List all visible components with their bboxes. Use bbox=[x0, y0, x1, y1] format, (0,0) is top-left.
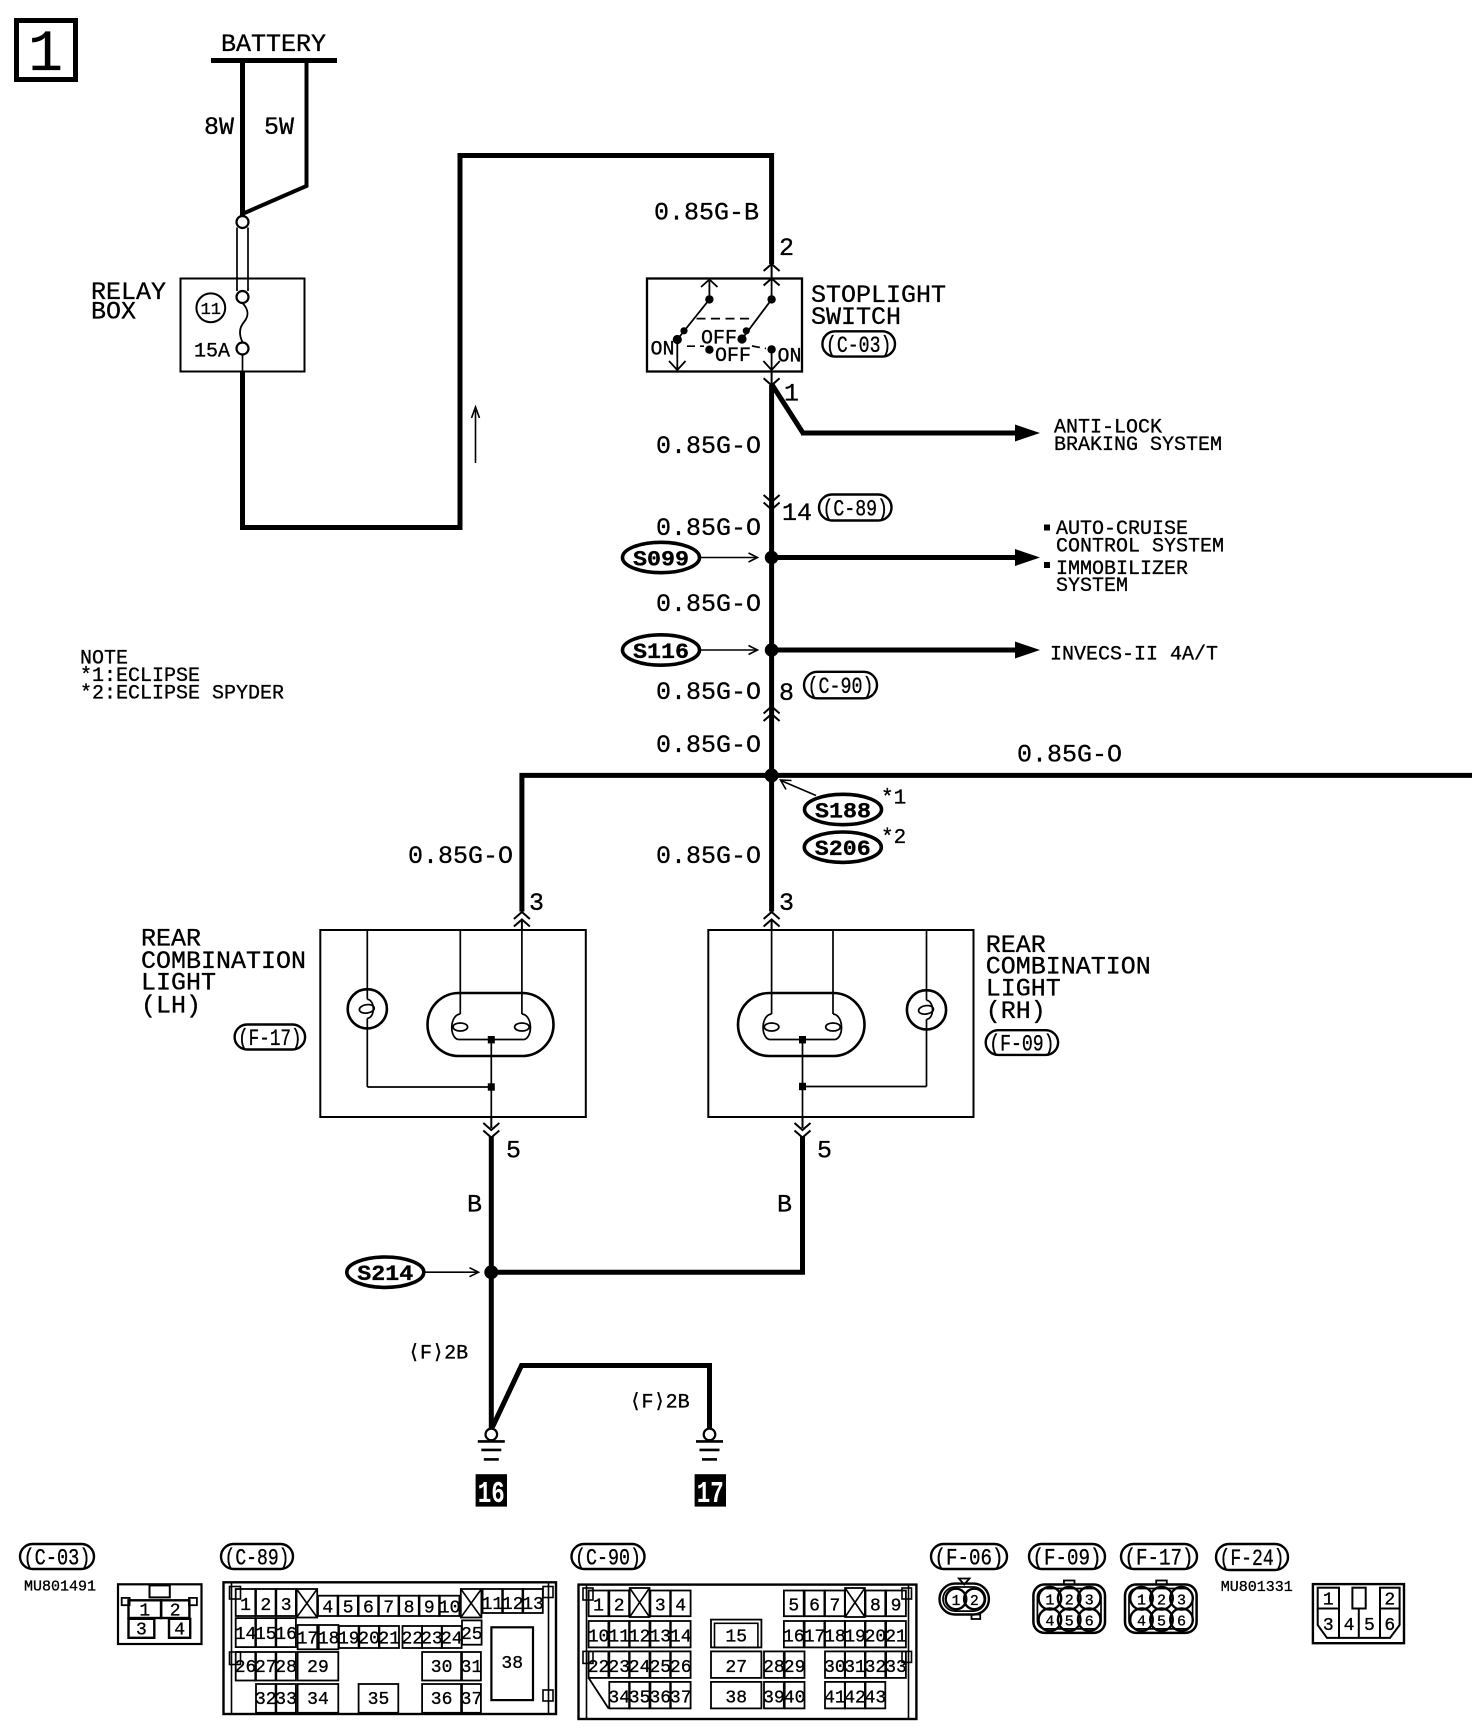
svg-text:5: 5 bbox=[506, 1137, 521, 1166]
fuse 15A bbox=[194, 303, 249, 371]
svg-text:5: 5 bbox=[817, 1137, 832, 1166]
svg-text:BATTERY: BATTERY bbox=[221, 30, 326, 59]
RH light pin 5 bbox=[795, 1117, 833, 1166]
flow direction arrow bbox=[472, 407, 480, 463]
battery B+ bbox=[211, 30, 337, 61]
wire label (F)2B left bbox=[408, 1343, 468, 1366]
rear combination light LH label bbox=[141, 925, 306, 1021]
connector C-90 pinout bbox=[579, 1585, 917, 1719]
svg-text:28: 28 bbox=[763, 1658, 785, 1678]
anti-lock braking system label bbox=[1054, 417, 1222, 458]
wire to LH rear combination light bbox=[522, 775, 772, 911]
splice S099 bbox=[623, 542, 758, 572]
wire label (F)2B right bbox=[630, 1392, 690, 1415]
svg-text:(C-90): (C-90) bbox=[808, 674, 874, 700]
svg-text:18: 18 bbox=[318, 1630, 340, 1650]
svg-text:38: 38 bbox=[725, 1689, 747, 1709]
svg-text:27: 27 bbox=[725, 1658, 747, 1678]
connector label F-24 bbox=[1216, 1544, 1288, 1572]
svg-text:38: 38 bbox=[501, 1654, 523, 1674]
wire RH to LH join bbox=[491, 1270, 805, 1275]
svg-text:30: 30 bbox=[824, 1658, 846, 1678]
svg-text:9: 9 bbox=[891, 1597, 902, 1617]
wire label 0.85G-O (RH branch) bbox=[656, 842, 761, 871]
wire label 0.85G-B bbox=[654, 199, 759, 228]
svg-text:9: 9 bbox=[424, 1599, 435, 1619]
rear combination light LH bbox=[320, 930, 586, 1117]
svg-text:1: 1 bbox=[240, 1596, 251, 1616]
svg-text:CONTROL SYSTEM: CONTROL SYSTEM bbox=[1056, 536, 1224, 559]
svg-text:13: 13 bbox=[649, 1628, 671, 1648]
svg-text:1: 1 bbox=[1137, 1592, 1146, 1609]
svg-text:(F-09): (F-09) bbox=[989, 1032, 1054, 1058]
fusible link capsule bbox=[237, 228, 249, 304]
svg-text:42: 42 bbox=[844, 1689, 866, 1709]
svg-text:15: 15 bbox=[725, 1628, 747, 1648]
LH light pin 3 bbox=[514, 889, 544, 930]
wire relay box to stoplight switch bbox=[243, 156, 772, 528]
svg-text:2: 2 bbox=[170, 1602, 181, 1622]
stoplight switch pin 1 bbox=[764, 372, 799, 409]
svg-text:4: 4 bbox=[174, 1621, 185, 1641]
auto-cruise / immobilizer label bbox=[1044, 518, 1224, 598]
relay box circuit number 11 bbox=[196, 293, 225, 322]
svg-text:(F-17): (F-17) bbox=[1125, 1546, 1194, 1572]
svg-text:(F-09): (F-09) bbox=[1033, 1546, 1102, 1572]
svg-text:0.85G-O: 0.85G-O bbox=[656, 842, 761, 871]
junction dot at S099 bbox=[765, 551, 779, 565]
svg-text:3: 3 bbox=[136, 1621, 147, 1641]
svg-text:MU801331: MU801331 bbox=[1221, 1579, 1293, 1596]
svg-text:4: 4 bbox=[675, 1597, 686, 1617]
svg-text:6: 6 bbox=[1177, 1614, 1186, 1631]
svg-text:5W: 5W bbox=[264, 113, 294, 142]
svg-text:14: 14 bbox=[782, 499, 812, 528]
svg-text:0.85G-B: 0.85G-B bbox=[654, 199, 759, 228]
svg-text:0.85G-O: 0.85G-O bbox=[656, 514, 761, 543]
connector label C-89 (bottom) bbox=[221, 1544, 293, 1572]
RH light pin 3 bbox=[764, 889, 794, 930]
svg-text:3: 3 bbox=[1177, 1592, 1186, 1609]
svg-text:7: 7 bbox=[829, 1597, 840, 1617]
svg-text:2: 2 bbox=[614, 1597, 625, 1617]
svg-text:(C-89): (C-89) bbox=[225, 1546, 290, 1572]
svg-text:21: 21 bbox=[378, 1630, 400, 1650]
svg-text:ON: ON bbox=[778, 346, 802, 369]
relay box bbox=[91, 278, 305, 372]
svg-text:40: 40 bbox=[784, 1689, 806, 1709]
svg-text:1: 1 bbox=[28, 23, 63, 88]
INVECS-II 4A/T label bbox=[1050, 644, 1218, 667]
svg-text:41: 41 bbox=[824, 1689, 846, 1709]
svg-text:11: 11 bbox=[482, 1595, 504, 1615]
svg-text:6: 6 bbox=[809, 1597, 820, 1617]
wire label 0.85G-O (3) bbox=[656, 590, 761, 619]
svg-text:⟨F⟩2B: ⟨F⟩2B bbox=[630, 1392, 690, 1415]
wire label 0.85G-O (4) bbox=[656, 678, 761, 707]
svg-text:3: 3 bbox=[1085, 1592, 1094, 1609]
svg-text:1: 1 bbox=[593, 1597, 604, 1617]
svg-text:17: 17 bbox=[697, 1477, 724, 1512]
svg-text:4: 4 bbox=[1045, 1614, 1054, 1631]
svg-text:33: 33 bbox=[275, 1690, 297, 1710]
connector label F-09 (bottom) bbox=[1029, 1544, 1105, 1572]
splice S116 bbox=[623, 635, 758, 665]
svg-text:ON: ON bbox=[651, 339, 675, 362]
svg-text:B: B bbox=[467, 1191, 482, 1220]
svg-text:35: 35 bbox=[629, 1689, 651, 1709]
wire to INVECS-II 4A/T bbox=[772, 642, 1040, 659]
svg-text:5: 5 bbox=[1157, 1614, 1166, 1631]
ground 16 symbol bbox=[478, 1429, 505, 1460]
svg-text:30: 30 bbox=[431, 1658, 453, 1678]
svg-text:4: 4 bbox=[1344, 1616, 1355, 1636]
ground reference 16 bbox=[476, 1474, 507, 1512]
svg-text:15A: 15A bbox=[194, 341, 230, 364]
connector C-89 pinout bbox=[224, 1582, 557, 1714]
wire RH light down bbox=[777, 1136, 803, 1274]
svg-text:5: 5 bbox=[788, 1597, 799, 1617]
svg-text:SYSTEM: SYSTEM bbox=[1056, 575, 1128, 598]
wire to auto-cruise and immobilizer bbox=[772, 549, 1040, 566]
wire to anti-lock braking system bbox=[772, 384, 1040, 442]
svg-text:0.85G-O: 0.85G-O bbox=[656, 590, 761, 619]
connector F-24 pinout bbox=[1313, 1584, 1404, 1643]
svg-text:27: 27 bbox=[255, 1658, 277, 1678]
svg-text:5: 5 bbox=[1364, 1616, 1375, 1636]
rear combination light RH label bbox=[986, 931, 1151, 1026]
connector C-90 pin 8 bbox=[764, 672, 877, 721]
part number MU801331 bbox=[1221, 1579, 1293, 1596]
svg-text:6: 6 bbox=[363, 1599, 374, 1619]
LH light pin 5 bbox=[483, 1117, 521, 1166]
connector label C-90 (bottom) bbox=[572, 1544, 645, 1572]
svg-text:5: 5 bbox=[1065, 1614, 1074, 1631]
note eclipse / spyder bbox=[80, 648, 284, 706]
svg-text:20: 20 bbox=[358, 1630, 380, 1650]
svg-text:5: 5 bbox=[343, 1599, 354, 1619]
svg-text:8: 8 bbox=[404, 1599, 415, 1619]
svg-text:1: 1 bbox=[1045, 1592, 1054, 1609]
svg-text:10: 10 bbox=[439, 1599, 461, 1619]
wire label 0.85G-O (1) bbox=[656, 432, 761, 461]
svg-text:2: 2 bbox=[1157, 1592, 1166, 1609]
stoplight switch label bbox=[811, 281, 946, 332]
svg-text:26: 26 bbox=[670, 1658, 692, 1678]
ground reference 17 bbox=[695, 1474, 726, 1512]
svg-text:B: B bbox=[777, 1191, 792, 1220]
svg-text:S206: S206 bbox=[815, 837, 871, 862]
svg-text:INVECS-II 4A/T: INVECS-II 4A/T bbox=[1050, 644, 1218, 667]
svg-text:(F-06): (F-06) bbox=[935, 1546, 1004, 1572]
svg-text:31: 31 bbox=[461, 1658, 483, 1678]
svg-text:3: 3 bbox=[1323, 1616, 1334, 1636]
svg-text:24: 24 bbox=[441, 1630, 463, 1650]
horizontal wire 0.85G-O to right edge bbox=[772, 741, 1472, 776]
svg-text:0.85G-O: 0.85G-O bbox=[656, 731, 761, 760]
svg-text:34: 34 bbox=[608, 1689, 630, 1709]
ground 17 symbol bbox=[696, 1429, 723, 1460]
svg-text:6: 6 bbox=[1384, 1616, 1395, 1636]
svg-text:0.85G-O: 0.85G-O bbox=[656, 432, 761, 461]
svg-text:(C-03): (C-03) bbox=[24, 1546, 91, 1572]
svg-text:37: 37 bbox=[461, 1690, 483, 1710]
svg-text:23: 23 bbox=[608, 1658, 630, 1678]
svg-text:31: 31 bbox=[844, 1658, 866, 1678]
wire 8W from battery bbox=[204, 60, 243, 216]
junction dot S214 bbox=[484, 1265, 498, 1279]
ground branch wire to ground 17 bbox=[493, 1366, 710, 1429]
svg-text:*1: *1 bbox=[881, 788, 906, 811]
stoplight switch pin 2 bbox=[764, 234, 794, 286]
svg-text:⟨F⟩2B: ⟨F⟩2B bbox=[408, 1343, 468, 1366]
svg-text:6: 6 bbox=[1085, 1614, 1094, 1631]
svg-text:35: 35 bbox=[368, 1690, 390, 1710]
svg-text:S116: S116 bbox=[633, 640, 689, 665]
svg-text:26: 26 bbox=[235, 1658, 257, 1678]
svg-text:22: 22 bbox=[588, 1658, 610, 1678]
svg-text:14: 14 bbox=[670, 1628, 692, 1648]
svg-text:(LH): (LH) bbox=[141, 992, 201, 1021]
svg-text:28: 28 bbox=[275, 1658, 297, 1678]
svg-text:S214: S214 bbox=[357, 1262, 413, 1287]
svg-text:19: 19 bbox=[338, 1630, 360, 1650]
svg-text:8: 8 bbox=[870, 1597, 881, 1617]
svg-text:8: 8 bbox=[779, 679, 794, 708]
svg-text:16: 16 bbox=[275, 1625, 297, 1645]
svg-text:BOX: BOX bbox=[91, 298, 136, 327]
svg-text:25: 25 bbox=[461, 1625, 483, 1645]
svg-text:1: 1 bbox=[139, 1602, 150, 1622]
svg-text:3: 3 bbox=[529, 889, 544, 918]
connector label C-03 bbox=[822, 331, 895, 359]
svg-text:16: 16 bbox=[478, 1477, 505, 1512]
svg-text:17: 17 bbox=[804, 1628, 826, 1648]
svg-text:17: 17 bbox=[297, 1630, 319, 1650]
svg-text:S099: S099 bbox=[633, 547, 689, 572]
svg-text:SWITCH: SWITCH bbox=[811, 303, 901, 332]
page number 1 bbox=[17, 21, 76, 89]
svg-text:4: 4 bbox=[1137, 1614, 1146, 1631]
svg-text:19: 19 bbox=[844, 1628, 866, 1648]
svg-text:2: 2 bbox=[970, 1594, 979, 1610]
svg-text:(C-03): (C-03) bbox=[826, 333, 892, 359]
svg-text:32: 32 bbox=[255, 1690, 277, 1710]
connector F-06 pinout bbox=[940, 1579, 989, 1620]
svg-text:39: 39 bbox=[763, 1689, 785, 1709]
svg-text:16: 16 bbox=[783, 1628, 805, 1648]
svg-text:29: 29 bbox=[784, 1658, 806, 1678]
rear combination light RH bbox=[708, 930, 973, 1117]
svg-text:MU801491: MU801491 bbox=[24, 1579, 96, 1596]
svg-text:43: 43 bbox=[865, 1689, 887, 1709]
svg-text:BRAKING SYSTEM: BRAKING SYSTEM bbox=[1054, 434, 1222, 457]
svg-text:11: 11 bbox=[608, 1628, 630, 1648]
svg-text:0.85G-O: 0.85G-O bbox=[408, 842, 513, 871]
svg-text:8W: 8W bbox=[204, 113, 234, 142]
svg-text:13: 13 bbox=[522, 1595, 544, 1615]
part number MU801491 bbox=[24, 1579, 96, 1596]
splice S206 (*2) bbox=[804, 827, 906, 862]
svg-text:10: 10 bbox=[588, 1628, 610, 1648]
wire LH light to ground splice bbox=[467, 1136, 491, 1428]
svg-text:34: 34 bbox=[307, 1690, 329, 1710]
connector C-03 pinout bbox=[118, 1584, 202, 1644]
svg-text:3: 3 bbox=[281, 1596, 292, 1616]
svg-text:36: 36 bbox=[431, 1690, 453, 1710]
connector C-89 pin 14 bbox=[764, 495, 892, 529]
svg-text:22: 22 bbox=[401, 1630, 423, 1650]
connector label F-17 bbox=[235, 1025, 306, 1053]
svg-text:0.85G-O: 0.85G-O bbox=[1017, 741, 1122, 770]
svg-text:(C-89): (C-89) bbox=[823, 497, 889, 523]
svg-text:(C-90): (C-90) bbox=[575, 1546, 641, 1572]
svg-text:4: 4 bbox=[322, 1599, 333, 1619]
wire label 0.85G-O (5) bbox=[656, 731, 761, 760]
svg-text:OFF: OFF bbox=[715, 345, 751, 368]
svg-text:15: 15 bbox=[255, 1625, 277, 1645]
connector label F-06 bbox=[931, 1544, 1007, 1572]
svg-text:23: 23 bbox=[421, 1630, 443, 1650]
wire 5W from battery bbox=[245, 60, 307, 213]
splice S214 bbox=[347, 1257, 479, 1287]
svg-text:3: 3 bbox=[779, 889, 794, 918]
svg-text:12: 12 bbox=[629, 1628, 651, 1648]
junction dot to rear lights bbox=[765, 768, 779, 782]
svg-text:S188: S188 bbox=[815, 799, 871, 824]
wire label 0.85G-O (2) bbox=[656, 514, 761, 543]
connector F-09 pinout bbox=[1033, 1581, 1105, 1633]
svg-text:2: 2 bbox=[779, 234, 794, 263]
main trunk wire bbox=[769, 385, 774, 912]
svg-text:7: 7 bbox=[383, 1599, 394, 1619]
svg-text:33: 33 bbox=[885, 1658, 907, 1678]
svg-text:24: 24 bbox=[629, 1658, 651, 1678]
svg-text:36: 36 bbox=[649, 1689, 671, 1709]
svg-text:(F-24): (F-24) bbox=[1220, 1546, 1285, 1572]
svg-text:1: 1 bbox=[1323, 1591, 1334, 1611]
connector junction circle bbox=[237, 216, 249, 228]
svg-text:11: 11 bbox=[201, 301, 221, 320]
svg-text:(F-17): (F-17) bbox=[238, 1026, 302, 1052]
svg-text:2: 2 bbox=[1384, 1591, 1395, 1611]
svg-text:2: 2 bbox=[1065, 1592, 1074, 1609]
svg-text:32: 32 bbox=[865, 1658, 887, 1678]
svg-text:(RH): (RH) bbox=[986, 997, 1046, 1026]
junction dot at S116 bbox=[765, 643, 779, 657]
svg-text:*2: *2 bbox=[881, 827, 906, 850]
svg-text:37: 37 bbox=[670, 1689, 692, 1709]
svg-text:14: 14 bbox=[235, 1625, 257, 1645]
wire label 0.85G-O (LH branch) bbox=[408, 842, 513, 871]
svg-text:25: 25 bbox=[649, 1658, 671, 1678]
svg-text:*2:ECLIPSE SPYDER: *2:ECLIPSE SPYDER bbox=[80, 683, 284, 706]
svg-text:18: 18 bbox=[824, 1628, 846, 1648]
splice S188 (*1) bbox=[781, 780, 907, 825]
svg-text:2: 2 bbox=[260, 1596, 271, 1616]
connector label F-17 (bottom) bbox=[1121, 1544, 1197, 1572]
connector F-17 pinout bbox=[1125, 1581, 1197, 1633]
stoplight switch bbox=[647, 279, 802, 372]
connector label F-09 bbox=[986, 1030, 1058, 1058]
svg-text:12: 12 bbox=[502, 1595, 524, 1615]
connector label C-03 (bottom) bbox=[20, 1544, 94, 1572]
svg-text:29: 29 bbox=[307, 1658, 329, 1678]
svg-text:0.85G-O: 0.85G-O bbox=[656, 678, 761, 707]
svg-text:21: 21 bbox=[885, 1628, 907, 1648]
svg-text:20: 20 bbox=[865, 1628, 887, 1648]
svg-text:1: 1 bbox=[952, 1594, 961, 1610]
svg-text:3: 3 bbox=[655, 1597, 666, 1617]
